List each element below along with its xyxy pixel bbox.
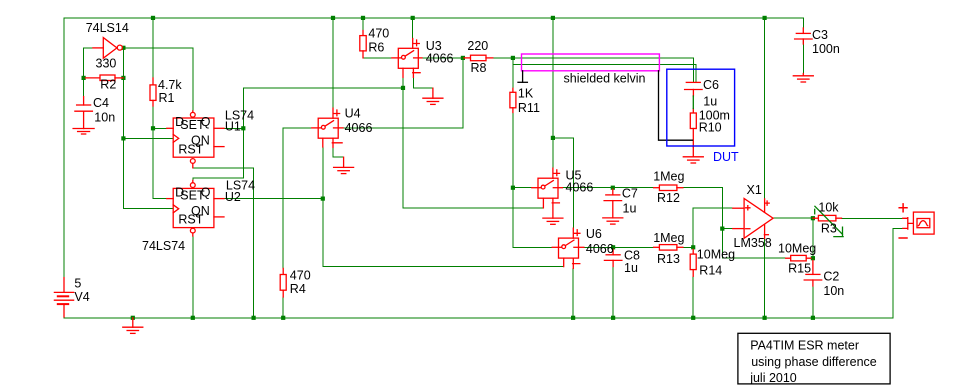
wire R4 top feed from U4 input	[282, 128, 284, 269]
ground below C7	[603, 218, 623, 224]
svg-text:C6: C6	[703, 78, 719, 92]
svg-text:U1: U1	[225, 120, 241, 134]
switch U3 4066	[392, 39, 422, 78]
inverter 74LS14 A1	[93, 38, 122, 59]
svg-text:5: 5	[74, 277, 81, 291]
opamp X1 LM358	[733, 199, 773, 239]
node R2 right	[121, 76, 125, 80]
node U3 VDD on +5V bus	[411, 16, 415, 20]
svg-text:220: 220	[467, 39, 488, 53]
wire inverting input lead	[722, 228, 733, 230]
shield line to DUT black	[659, 71, 693, 140]
switch U4 4066	[312, 108, 343, 147]
svg-text:using phase difference: using phase difference	[751, 355, 877, 369]
svg-text:10n: 10n	[823, 284, 844, 298]
svg-text:10Meg: 10Meg	[697, 248, 735, 262]
svg-text:R10: R10	[699, 121, 722, 135]
svg-text:10k: 10k	[818, 201, 839, 215]
wire left +5V drop to V4	[63, 18, 65, 278]
wire U3 VSS jog	[413, 77, 433, 88]
node R11 bottom sense	[511, 186, 515, 190]
resistor R6 470	[360, 31, 366, 58]
node U4 VDD on +5V bus	[331, 16, 335, 20]
svg-text:R6: R6	[368, 41, 384, 55]
wire U1 RST to ground bus	[193, 168, 254, 318]
wire inverter output to SET drop	[123, 48, 193, 111]
wire top +5V bus	[64, 17, 803, 19]
wire bottom ground bus	[64, 317, 893, 319]
wire C4 top from node	[83, 48, 85, 97]
svg-text:4066: 4066	[345, 121, 373, 135]
ground flag on bus	[123, 318, 143, 334]
wire U2 clock input	[123, 208, 173, 210]
svg-text:juli 2010: juli 2010	[749, 371, 797, 385]
wire meter minus to bus	[893, 228, 903, 317]
battery V4 5V	[54, 278, 73, 317]
wire U5 output to C7 node	[563, 187, 613, 189]
wire R10 mid (green)	[692, 96, 694, 109]
svg-text:R11: R11	[518, 101, 540, 115]
ground below C4	[73, 129, 94, 135]
node inverter output	[121, 46, 125, 50]
svg-text:R13: R13	[657, 252, 680, 266]
resistor R12 1Meg	[654, 185, 683, 191]
wire C7 node to R12	[613, 187, 654, 189]
COMPONENTS (red)	[54, 28, 934, 333]
node U5 VDD on +5V bus	[551, 16, 555, 20]
node R14 on bus	[691, 316, 695, 320]
svg-text:R4: R4	[290, 282, 306, 296]
svg-text:1u: 1u	[624, 261, 638, 275]
node U3 control tap	[401, 86, 405, 90]
capacitor C6 1u	[685, 82, 703, 96]
wire U5 input	[513, 187, 532, 189]
svg-text:330: 330	[96, 57, 117, 71]
wire R3 to meter	[842, 217, 903, 219]
DUT blue box	[667, 69, 735, 146]
ground below U4 VSS	[334, 157, 354, 173]
svg-text:4066: 4066	[426, 51, 454, 65]
svg-text:PA4TIM ESR meter: PA4TIM ESR meter	[750, 338, 859, 352]
wire U1 D input	[153, 127, 167, 129]
node R4 on bus	[281, 316, 285, 320]
node U1 clock tap	[121, 136, 125, 140]
resistor R4 470	[280, 268, 286, 297]
wire U3 input from R6	[363, 57, 392, 59]
wire U4 input	[283, 127, 312, 129]
wire U6 VSS to bus	[572, 268, 574, 318]
svg-text:R1: R1	[159, 91, 175, 105]
meter probe symbol	[899, 204, 934, 238]
svg-text:470: 470	[290, 268, 311, 282]
svg-text:C7: C7	[622, 187, 638, 201]
node R15 C2 join	[811, 256, 815, 260]
svg-text:1K: 1K	[518, 87, 534, 101]
wire U3 VDD feed	[412, 18, 414, 39]
capacitor C7 1u	[604, 189, 622, 218]
wire R12 to opamp inverting input	[683, 188, 722, 229]
wire R11 top	[512, 58, 514, 88]
resistor R1 4.7k	[150, 78, 156, 106]
capacitor C4 10n	[75, 97, 93, 129]
wire U4 VDD feed	[332, 18, 334, 108]
wire R6 top feed	[362, 18, 364, 31]
svg-text:R8: R8	[471, 61, 487, 75]
flip-flop U1 LS74	[167, 111, 224, 168]
node C8 tap	[611, 245, 615, 249]
svg-text:RST: RST	[178, 213, 203, 227]
svg-text:4066: 4066	[586, 242, 614, 256]
svg-text:470: 470	[368, 26, 389, 40]
svg-text:4066: 4066	[566, 181, 594, 195]
svg-text:R12: R12	[657, 191, 680, 205]
resistor R3 10k	[813, 215, 842, 221]
annotation box	[738, 333, 890, 384]
capacitor C8 1u	[604, 249, 622, 266]
wire U6 output to C8 node	[584, 246, 613, 248]
wire C8 node to R13	[613, 246, 654, 248]
wire R14 node up to noninverting input	[693, 208, 733, 247]
wire kelvin sense line	[513, 65, 696, 83]
wire C3 top feed	[802, 18, 804, 28]
wire U1 Q node down to U2 SET	[193, 128, 244, 180]
svg-text:Q: Q	[201, 115, 211, 129]
wire R14 bottom to bus	[692, 276, 694, 318]
wire U2 Q to U4/U6 control node	[224, 198, 323, 200]
shield stub black T	[518, 71, 527, 83]
wire U4 control drop	[323, 147, 564, 267]
wire U5 U6 VDD feed	[552, 18, 554, 168]
node C7 tap	[611, 186, 615, 190]
svg-text:4.7k: 4.7k	[158, 78, 182, 92]
ground below U3 VSS	[423, 88, 443, 104]
capacitor C3 100n	[795, 28, 813, 44]
wire U3 output	[422, 57, 464, 59]
wire U1 Q to node	[224, 127, 243, 129]
svg-text:1Meg: 1Meg	[653, 231, 684, 245]
resistor R13 1Meg	[654, 245, 683, 251]
svg-text:1Meg: 1Meg	[653, 170, 684, 184]
node U5 VDD split	[551, 136, 555, 140]
node U1 Q	[241, 126, 245, 130]
svg-text:shielded kelvin: shielded kelvin	[564, 71, 646, 85]
svg-text:1u: 1u	[623, 201, 637, 215]
node U3 U4 output join	[461, 56, 465, 60]
resistor R8 220	[464, 55, 493, 61]
svg-text:R15: R15	[788, 262, 811, 276]
resistor R11 1K	[510, 88, 516, 112]
node R2 left	[82, 76, 86, 80]
wire R1 top feed	[152, 18, 154, 78]
node C8 on bus	[611, 316, 615, 320]
node R8 output kelvin	[511, 56, 515, 60]
wire R3 node down to R15 node	[812, 218, 814, 258]
wire R4 bottom to bus	[282, 297, 284, 318]
svg-text:74LS74: 74LS74	[142, 239, 185, 253]
wire U2 RST to ground bus	[192, 236, 194, 318]
wire U6 input drop	[513, 188, 552, 248]
svg-text:U6: U6	[586, 227, 602, 241]
svg-text:RST: RST	[178, 142, 203, 156]
svg-text:R14: R14	[699, 263, 722, 277]
wire U1 clock input	[123, 137, 173, 139]
node U1 D tap	[151, 126, 155, 130]
wire U6 VDD jog	[553, 138, 573, 228]
node R1 top on +5V bus	[151, 16, 155, 20]
svg-text:100n: 100n	[812, 42, 840, 56]
wire R1 bottom to U1 D junction	[152, 106, 154, 128]
wire R15 right to C2 node	[811, 257, 813, 259]
wire C8 bottom to bus	[612, 267, 614, 318]
wire U2 D drop	[153, 128, 167, 198]
node opamp V+ on +5V bus	[763, 16, 767, 20]
svg-text:R2: R2	[100, 78, 116, 92]
wire U4 VSS jog	[333, 147, 344, 157]
wire kelvin force line	[513, 58, 694, 82]
svg-text:10Meg: 10Meg	[778, 242, 816, 256]
wire oscillator clock vertical	[122, 48, 124, 209]
wire C2 bottom to bus	[812, 286, 814, 318]
svg-text:74LS14: 74LS14	[86, 21, 129, 35]
node U2 RST on bus	[191, 316, 195, 320]
svg-text:DUT: DUT	[713, 150, 739, 164]
R3 trimmer arrow (green)	[815, 206, 843, 236]
wire R8 right to kelvin node	[493, 57, 513, 59]
wire U3 control pin to U5 control	[403, 77, 543, 208]
node U1 RST on bus	[252, 316, 256, 320]
node opamp V- on bus	[763, 316, 767, 320]
svg-text:C4: C4	[93, 96, 109, 110]
node ground flag on bus	[131, 316, 135, 320]
wire C3 bottom	[802, 39, 804, 74]
svg-text:LM358: LM358	[734, 236, 772, 250]
resistor R2 330	[85, 75, 123, 81]
resistor R15 10Meg	[786, 255, 811, 261]
svg-text:X1: X1	[747, 183, 762, 197]
resistor R14 10Meg	[690, 249, 696, 276]
wire V4 bottom corner	[63, 316, 65, 319]
ground below R10	[683, 147, 703, 163]
wire inverter input loop	[84, 48, 93, 97]
node C2 on bus	[811, 316, 815, 320]
wire U4 output to R8 node	[343, 58, 463, 128]
svg-text:U2: U2	[225, 190, 241, 204]
svg-text:R3: R3	[821, 221, 837, 235]
wire feedback to R15	[722, 229, 785, 259]
switch U6 4066	[552, 228, 584, 268]
flip-flop U2 LS74	[167, 180, 224, 236]
ground below U5 VSS	[543, 218, 563, 224]
node R13 R14 join	[691, 245, 695, 249]
ground below C3	[793, 74, 813, 83]
svg-text:V4: V4	[74, 290, 89, 304]
svg-text:C2: C2	[823, 269, 839, 283]
node inverting input	[720, 227, 724, 231]
node R6 top on +5V bus	[361, 16, 365, 20]
shielded kelvin magenta box	[522, 54, 660, 71]
node U6 VSS on bus	[571, 316, 575, 320]
wire U1 Q node up and right to U3 control	[243, 88, 403, 128]
svg-text:Q: Q	[201, 186, 211, 200]
wire opamp output to R3 node	[774, 217, 813, 219]
capacitor C2 10n	[804, 260, 822, 286]
svg-text:U4: U4	[345, 107, 361, 121]
wire opamp V+ feed	[764, 18, 766, 199]
switch U5 4066	[532, 168, 563, 218]
resistor R10 100m	[690, 109, 696, 148]
svg-text:10n: 10n	[94, 110, 115, 124]
svg-text:C3: C3	[812, 28, 828, 42]
node U2 Q to U4 control	[321, 197, 325, 201]
wire R13 to R14 node	[683, 246, 693, 248]
node opamp output R3	[811, 216, 815, 220]
wire R11 bottom to sense node	[512, 113, 514, 188]
svg-text:1u: 1u	[703, 95, 717, 109]
wire opamp V- to bus	[764, 239, 766, 318]
